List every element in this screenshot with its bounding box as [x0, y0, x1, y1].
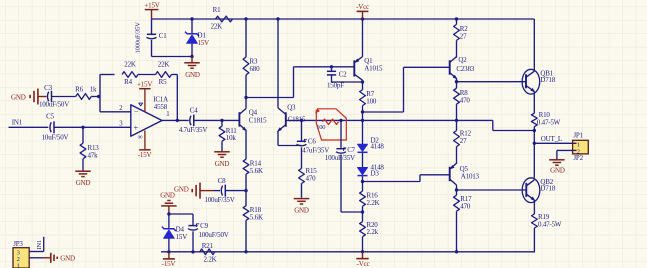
wire to Q5 base (step): [363, 175, 450, 182]
svg-text:-15V: -15V: [138, 151, 152, 159]
wire OUT to QB2 collector: [533, 143, 535, 178]
svg-text:R4: R4: [124, 78, 132, 86]
wire JP1 pin2 to GND: [557, 150, 573, 159]
wire Q3 collector column: [277, 19, 279, 108]
svg-text:C8: C8: [218, 177, 226, 185]
junction QB1 base tap: [455, 80, 458, 83]
resistor R2 27: [454, 19, 469, 58]
ground GND (C8, bar style): [174, 183, 214, 199]
resistor R5 22K: [156, 60, 172, 86]
ground GND (R11): [214, 152, 230, 168]
svg-text:100uF/35V: 100uF/35V: [204, 196, 234, 204]
transistor QB1 D718: [522, 19, 556, 113]
svg-text:10uF/50V: 10uF/50V: [42, 134, 69, 142]
svg-text:D718: D718: [540, 184, 555, 192]
wire GND node to C9: [169, 213, 193, 215]
ground GND (R13): [75, 171, 91, 187]
svg-text:R6: R6: [75, 85, 83, 93]
svg-text:1: 1: [17, 262, 20, 268]
wire OUT to JP1: [534, 142, 572, 144]
svg-text:27: 27: [460, 137, 467, 145]
svg-text:Q5: Q5: [460, 165, 469, 173]
svg-text:4558: 4558: [154, 103, 168, 111]
svg-text:100uF/35V: 100uF/35V: [325, 154, 355, 162]
transistor Q2 C2383: [450, 56, 475, 88]
junction R17 bottom: [455, 250, 458, 253]
junction R3 top: [244, 17, 247, 20]
capacitor C3 100uF/50V: [39, 84, 76, 108]
wire Q2 emitter to QB1 base: [457, 81, 526, 83]
junction feedback/output: [176, 119, 179, 122]
net label IN1: [12, 118, 23, 126]
svg-text:A1013: A1013: [461, 173, 480, 181]
potentiometer R9 100 (selected red): [314, 109, 347, 140]
wire Q5 collector to QB2 base: [457, 189, 527, 191]
transistor Q3 C1815 (mirrored): [276, 104, 306, 134]
svg-text:OUT_L: OUT_L: [541, 135, 562, 143]
svg-text:470: 470: [460, 97, 471, 105]
connector JP1/JP2: [573, 132, 589, 162]
junction D4/C9 top: [167, 212, 170, 215]
junction Q5 base tap: [361, 180, 364, 183]
junction OUT node: [533, 142, 536, 145]
svg-text:-15V: -15V: [162, 260, 176, 268]
svg-text:C3: C3: [44, 84, 52, 92]
svg-text:D3: D3: [371, 169, 380, 177]
svg-text:15V: 15V: [176, 233, 188, 241]
junction C9 bottom: [191, 250, 194, 253]
power -Vcc (top): [356, 3, 369, 19]
svg-text:Q2: Q2: [458, 56, 467, 64]
wire JP3 pin3 to IN1 stub: [29, 237, 44, 252]
capacitor C7 100uF/35V: [325, 120, 356, 212]
svg-text:GND: GND: [160, 191, 175, 199]
transistor Q1 A1015: [353, 19, 383, 90]
svg-text:2.2K: 2.2K: [203, 256, 216, 264]
junction R8/R12 node: [455, 119, 458, 122]
ground GND (D4, inverted earth): [160, 191, 176, 214]
svg-text:C2383: C2383: [456, 65, 474, 73]
junction QB2 base tap: [455, 188, 458, 191]
svg-text:+15V: +15V: [137, 80, 152, 88]
capacitor C4 4.7uF/35V: [179, 106, 207, 134]
svg-text:GND: GND: [550, 167, 565, 175]
resistor R14 5.6K: [243, 159, 263, 206]
svg-text:C1: C1: [159, 32, 167, 40]
resistor R3 680: [243, 19, 260, 98]
wire C7 to R16/R20 node: [341, 211, 363, 213]
svg-text:C2: C2: [339, 70, 347, 78]
net label IN1 (JP3): [36, 240, 43, 250]
wire D2-D3: [362, 153, 364, 168]
wire R4-R5: [138, 74, 156, 76]
power -Vcc (bottom): [356, 252, 369, 268]
svg-text:R1: R1: [213, 6, 221, 14]
ground GND (JP1 pin2): [549, 160, 565, 175]
junction top rail / Q3 column: [276, 17, 279, 20]
svg-text:GND: GND: [185, 71, 200, 79]
ground GND (R15): [294, 199, 310, 215]
connector JP3: [13, 240, 29, 268]
svg-text:5.6K: 5.6K: [250, 167, 263, 175]
junction inverting node: [97, 95, 100, 98]
wire C4 to Q4 base: [194, 119, 240, 121]
svg-text:IN1: IN1: [12, 118, 23, 126]
svg-text:0.47-5W: 0.47-5W: [537, 119, 561, 127]
svg-text:C1815: C1815: [288, 116, 306, 124]
power -15V (op-amp): [138, 131, 152, 160]
ground GND (D1): [184, 57, 200, 79]
svg-text:47k: 47k: [88, 151, 99, 159]
svg-text:IN1: IN1: [36, 240, 43, 250]
capacitor C2 150pF: [327, 67, 363, 90]
svg-text:0.47-5W: 0.47-5W: [538, 220, 562, 228]
wire C1/D1 bottom: [152, 56, 193, 58]
resistor R17 470: [454, 195, 472, 252]
svg-text:5.6K: 5.6K: [250, 213, 263, 221]
svg-text:JP3: JP3: [13, 240, 23, 248]
svg-text:470: 470: [460, 202, 471, 210]
resistor R16 2.2K: [360, 191, 380, 222]
svg-text:C9: C9: [200, 222, 208, 230]
junction top rail / -Vcc stem: [361, 17, 364, 20]
svg-text:22K: 22K: [158, 60, 170, 68]
svg-text:JP2: JP2: [573, 154, 583, 162]
capacitor C6 47uF/35V: [297, 120, 330, 154]
wire feedback top: [100, 74, 115, 76]
power +15V (op-amp): [137, 80, 152, 111]
wire op-amp output: [162, 119, 189, 121]
svg-text:1000uF/35V: 1000uF/35V: [135, 22, 142, 54]
svg-text:150pF: 150pF: [327, 82, 344, 90]
junction C7 top: [339, 119, 342, 122]
resistor R6 1k: [75, 85, 97, 99]
svg-text:-Vcc: -Vcc: [357, 260, 370, 268]
wire Q3 emitter: [278, 131, 302, 146]
capacitor C1: [135, 19, 168, 57]
junction R13 tap: [81, 126, 84, 129]
svg-text:−: −: [134, 108, 139, 117]
svg-text:22K: 22K: [211, 23, 223, 31]
resistor R8 470: [454, 88, 471, 130]
svg-text:C7: C7: [347, 146, 355, 154]
power +15V port: [144, 2, 159, 19]
wire bias line (Q3 base to R8/R12): [286, 119, 457, 121]
svg-text:100uF/50V: 100uF/50V: [39, 101, 69, 109]
svg-text:+15V: +15V: [144, 2, 159, 10]
junction Q2 base tap: [361, 110, 364, 113]
svg-text:C4: C4: [190, 106, 198, 114]
wire bias to output step: [457, 120, 535, 130]
svg-text:GND: GND: [294, 206, 309, 214]
capacitor C8 100uF/35V: [204, 177, 246, 204]
diode D1 zener 15V: [185, 19, 209, 57]
wire pin2 stub: [100, 111, 131, 113]
diode D2 4148: [358, 136, 385, 152]
junction R2 top: [455, 17, 458, 20]
resistor R11 10k: [219, 120, 237, 151]
junction D1 bottom: [190, 55, 193, 58]
svg-text:1: 1: [166, 111, 169, 118]
resistor R1 22K: [211, 6, 233, 30]
svg-text:27: 27: [460, 33, 467, 41]
svg-text:R21: R21: [202, 242, 214, 250]
wire feedback to output: [172, 75, 178, 121]
svg-text:C5: C5: [46, 113, 54, 121]
power -15V port: [162, 252, 176, 268]
ground GND (JP3, bar style): [43, 253, 76, 263]
wire bottom rail: [161, 251, 535, 253]
svg-text:C1815: C1815: [249, 116, 267, 124]
svg-text:22K: 22K: [124, 60, 136, 68]
junction bias/diode column: [361, 119, 364, 122]
junction C6 top: [300, 119, 303, 122]
junction -15V node: [167, 250, 170, 253]
svg-text:47uF/35V: 47uF/35V: [302, 146, 329, 154]
resistor R10 0.47-5W: [531, 111, 560, 143]
wire rail to R19: [533, 251, 536, 253]
resistor R13 47k: [80, 127, 99, 170]
svg-text:2.2k: 2.2k: [367, 228, 379, 236]
resistor R7 100: [360, 90, 377, 145]
wire R6 to inverting node: [91, 96, 100, 98]
svg-text:4.7uF/35V: 4.7uF/35V: [179, 126, 207, 134]
svg-text:GND: GND: [60, 255, 75, 263]
diode D3 4148: [358, 163, 385, 177]
svg-text:10k: 10k: [226, 134, 237, 142]
svg-text:680: 680: [250, 65, 261, 73]
resistor R19 0.47-5W: [532, 213, 562, 252]
svg-text:GND: GND: [174, 185, 189, 193]
wire to Q1 base (riser): [293, 67, 295, 98]
wire to Q2 base (step): [363, 67, 450, 112]
capacitor C9 100uF/50V: [188, 214, 229, 252]
svg-text:GND: GND: [76, 179, 91, 187]
resistor R18 5.6K: [243, 206, 263, 252]
junction output step: [533, 129, 536, 132]
svg-text:R2: R2: [460, 25, 468, 33]
wire IN1 input: [9, 126, 49, 128]
svg-text:GND: GND: [215, 160, 230, 168]
junction C8 tap: [244, 189, 247, 192]
resistor R12 27: [454, 129, 472, 164]
wire Q4-Q3 collectors: [246, 97, 294, 99]
svg-text:R5: R5: [159, 78, 167, 86]
capacitor C5 10uF/50V: [42, 113, 69, 142]
svg-text:15V: 15V: [198, 39, 210, 47]
svg-text:4148: 4148: [371, 143, 385, 151]
resistor R21 2.2K: [200, 242, 217, 264]
svg-text:100uF/50V: 100uF/50V: [199, 231, 229, 239]
junction R16/R20 node: [361, 210, 364, 213]
svg-text:C6: C6: [308, 138, 316, 146]
wire inverting vertical: [99, 75, 101, 112]
wire top rail +15V/-Vcc: [152, 18, 535, 20]
svg-text:470: 470: [306, 174, 317, 182]
junction C2 tap: [330, 65, 333, 68]
wire JP3 pin2 to GND: [29, 257, 42, 259]
transistor Q5 A1013: [448, 163, 479, 195]
svg-text:∞: ∞: [138, 133, 143, 141]
resistor R15 470: [299, 147, 318, 198]
junction R11 tap: [220, 119, 223, 122]
svg-text:R12: R12: [460, 129, 472, 137]
net label OUT_L: [541, 135, 562, 143]
resistor R4 22K: [122, 60, 138, 86]
transistor Q4 C1815: [239, 98, 267, 160]
op-amp IC1A 4558: [119, 95, 169, 141]
svg-text:1k: 1k: [90, 85, 97, 93]
wire to Q1 base (horiz): [294, 66, 355, 68]
junction R20 bottom: [361, 250, 364, 253]
svg-text:GND: GND: [11, 93, 26, 101]
svg-text:D718: D718: [540, 76, 555, 84]
junction R18 bottom: [244, 250, 247, 253]
svg-text:JP1: JP1: [573, 132, 583, 140]
svg-text:+: +: [134, 124, 139, 133]
svg-text:100: 100: [316, 124, 325, 131]
wire C5 to pin3: [54, 126, 131, 128]
resistor R20 2.2k: [360, 221, 379, 252]
diode D4 zener 15V: [162, 214, 187, 252]
svg-text:A1015: A1015: [364, 65, 383, 73]
svg-text:Q3: Q3: [287, 104, 296, 112]
svg-text:Q4: Q4: [249, 109, 258, 117]
ground GND (C3, bar style): [11, 89, 47, 105]
junction Q4 collector / R3: [244, 96, 247, 99]
junction D1 top: [190, 17, 193, 20]
svg-text:100: 100: [366, 98, 377, 106]
wire D3 to R16: [362, 176, 364, 191]
junction C2/collector: [361, 80, 364, 83]
svg-text:-Vcc: -Vcc: [356, 3, 369, 11]
svg-text:2.2K: 2.2K: [367, 199, 380, 207]
transistor QB2 D718: [522, 178, 556, 214]
